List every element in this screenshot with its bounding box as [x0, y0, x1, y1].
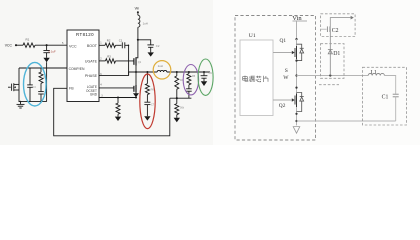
- transistor Q3 enable: [8, 83, 19, 91]
- svg-text:R2: R2: [107, 38, 111, 42]
- node divider B junction: [188, 71, 190, 73]
- wire L1 to C1: [384, 76, 395, 94]
- svg-text:C2: C2: [156, 44, 160, 48]
- ground converter: [293, 127, 300, 134]
- resistor Rocset: [116, 98, 120, 117]
- svg-text:BOOT: BOOT: [87, 44, 98, 48]
- wire VCC to R1: [16, 44, 23, 46]
- inductor L1: [368, 70, 384, 76]
- wire C2 to D1 to SW: [329, 29, 331, 75]
- capacitor C4 compensation: [38, 83, 44, 101]
- node green highlight ellipse output cap: [198, 59, 213, 95]
- ground VCC cap: [43, 58, 49, 62]
- capacitor C1 bootstrap: [119, 39, 125, 49]
- node Q2 source junction: [135, 96, 137, 98]
- capacitor C2 input: [147, 44, 159, 52]
- svg-text:C2: C2: [332, 28, 339, 34]
- wire output return: [297, 120, 396, 122]
- svg-text:RT8120: RT8120: [76, 32, 94, 37]
- resistor R4 feedback upper: [175, 72, 184, 98]
- node Q1 source junction: [295, 60, 297, 62]
- capacitor C2: [321, 26, 339, 34]
- node snubber junction: [146, 71, 148, 73]
- svg-text:C1: C1: [119, 39, 123, 43]
- capacitor C9 output: [201, 72, 213, 81]
- ground Q2 source arrow: [133, 93, 139, 97]
- diode Q2 body: [297, 93, 304, 112]
- ground feedback lower: [174, 118, 180, 122]
- svg-text:VCC: VCC: [69, 44, 77, 48]
- svg-text:R3: R3: [107, 54, 111, 58]
- node Vin input terminal: [135, 6, 140, 13]
- node Vin label: [292, 15, 307, 22]
- ground snubber: [144, 116, 150, 120]
- node SW junction: [295, 74, 297, 76]
- wire Vin drop: [296, 21, 298, 39]
- wire main rail: [296, 39, 298, 125]
- wire phase to SW node: [129, 72, 136, 76]
- capacitor C2 bootstrap dashed box: [321, 14, 356, 37]
- resistor R5 feedforward: [187, 72, 196, 85]
- wire R3 to Q1 gate: [116, 60, 134, 62]
- svg-text:Q2: Q2: [279, 103, 286, 109]
- wire inductor to Vin rail: [137, 27, 139, 40]
- wire C1 to phase node: [125, 45, 129, 75]
- wire PHASE pin: [99, 75, 129, 77]
- wire compensation network frame: [19, 68, 47, 102]
- node Q2 source junction: [295, 113, 297, 115]
- node purple highlight ellipse feedforward: [183, 65, 198, 95]
- wire C2 to BOOT arrow: [330, 18, 350, 30]
- wire output rail: [167, 71, 210, 73]
- op-amp U1 power chip box: [240, 33, 273, 115]
- node Q2 drain junction: [295, 87, 297, 89]
- wire SW to output inductor: [297, 75, 369, 77]
- inductor Lin input filter: [138, 15, 148, 27]
- wire U1 to Q2 gate: [273, 99, 292, 101]
- diode Q1 body: [297, 44, 304, 60]
- node compensation ground junction: [20, 101, 22, 103]
- resistor R2 bootstrap: [105, 38, 116, 47]
- svg-text:GND: GND: [90, 92, 98, 96]
- wire U1 to Q1 gate: [273, 52, 292, 54]
- wire feedback mid node: [170, 97, 192, 99]
- node red highlight ellipse snubber: [140, 74, 155, 129]
- resistor R7 compensation: [39, 68, 47, 83]
- capacitor C6 VCC decoupling: [43, 45, 56, 58]
- op-amp U1 controller IC RT8120: [67, 30, 99, 102]
- capacitor C5 feedforward: [186, 85, 192, 98]
- svg-text:C1: C1: [382, 95, 389, 101]
- diode D1 dashed box: [321, 44, 345, 79]
- node Vin rail junction: [137, 39, 139, 41]
- ground compensation earth: [17, 102, 25, 108]
- transistor Q1 high-side MOSFET: [134, 57, 142, 72]
- node yellow highlight circle inductor: [153, 61, 171, 79]
- wire R2 to C1: [116, 44, 122, 46]
- svg-text:0.1uF: 0.1uF: [49, 50, 56, 54]
- node SW label: [283, 68, 289, 81]
- svg-text:VCC: VCC: [5, 43, 13, 47]
- node bootstrap junction: [329, 74, 331, 76]
- node VCC decoupling junction: [46, 44, 48, 46]
- transistor Q2: [279, 94, 297, 110]
- svg-text:1uH: 1uH: [143, 22, 148, 26]
- inductor L1 output filter dashed box: [363, 67, 407, 125]
- wire FB return loop: [54, 88, 170, 136]
- node VCC input terminal: [5, 43, 17, 47]
- svg-text:UGATE: UGATE: [85, 59, 98, 63]
- RIGHT BLOCK DIAGRAM: [235, 14, 407, 140]
- node cyan highlight ellipse compensation: [24, 62, 47, 106]
- node Q1 drain junction: [295, 38, 297, 40]
- wire GND pin to Q2 source: [99, 97, 136, 99]
- svg-text:1uH: 1uH: [158, 64, 163, 68]
- node feedback mid junction: [176, 97, 178, 99]
- node bootstrap corner junction: [128, 45, 130, 47]
- capacitor C3 compensation: [27, 68, 36, 102]
- node divider A junction: [176, 71, 178, 73]
- svg-text:D1: D1: [333, 51, 340, 57]
- resistor R8 feedback lower: [175, 98, 185, 118]
- svg-text:Q1: Q1: [138, 61, 142, 64]
- svg-text:W: W: [283, 75, 289, 81]
- svg-text:S: S: [285, 68, 288, 74]
- svg-text:FB: FB: [69, 87, 74, 91]
- inductor Lout output: [157, 64, 167, 72]
- node SW junction: [135, 71, 137, 73]
- wire SW rail to output inductor: [136, 71, 157, 73]
- capacitor C1 output: [382, 94, 399, 100]
- resistor R6 snubber: [145, 72, 154, 95]
- diode D1: [328, 49, 340, 57]
- resistor R1: [23, 38, 35, 48]
- svg-text:Q1: Q1: [280, 38, 287, 44]
- svg-text:PHASE: PHASE: [85, 74, 98, 78]
- wire converter boundary dashed box: [235, 16, 316, 141]
- wire UGATE pin to R3: [99, 60, 106, 62]
- wire Vin rail to Q1 drain: [136, 40, 138, 58]
- resistor R3 gate: [106, 54, 116, 63]
- wire dashed annotation segment: [319, 84, 339, 86]
- svg-text:COMP/EN: COMP/EN: [69, 67, 85, 71]
- transistor Q2 low-side MOSFET: [134, 72, 136, 98]
- wire R1 to VCC pin: [35, 44, 67, 46]
- node OCSET junction: [117, 96, 119, 98]
- svg-text:Vin: Vin: [135, 6, 140, 10]
- ground output cap: [201, 81, 207, 86]
- ground OCSET: [115, 117, 121, 121]
- transistor Q1: [280, 38, 297, 59]
- ground input cap: [148, 52, 154, 56]
- svg-text:R1: R1: [26, 38, 30, 42]
- node output cap junction: [203, 71, 205, 73]
- wire VCC cap ground to comp rail: [46, 62, 48, 101]
- wire BOOT pin to R2: [99, 44, 105, 46]
- wire Vin to input inductor: [137, 13, 139, 15]
- node BOOT arrow: [351, 16, 354, 20]
- wire C1 to return: [395, 97, 397, 121]
- wire COMP pin to compensation network: [19, 67, 67, 69]
- node output return junction: [295, 120, 297, 122]
- svg-text:U1: U1: [249, 33, 256, 39]
- capacitor C7 snubber: [144, 95, 154, 117]
- wire LGATE pin to Q2 gate: [99, 87, 134, 89]
- wire Vin rail to C2: [138, 40, 151, 45]
